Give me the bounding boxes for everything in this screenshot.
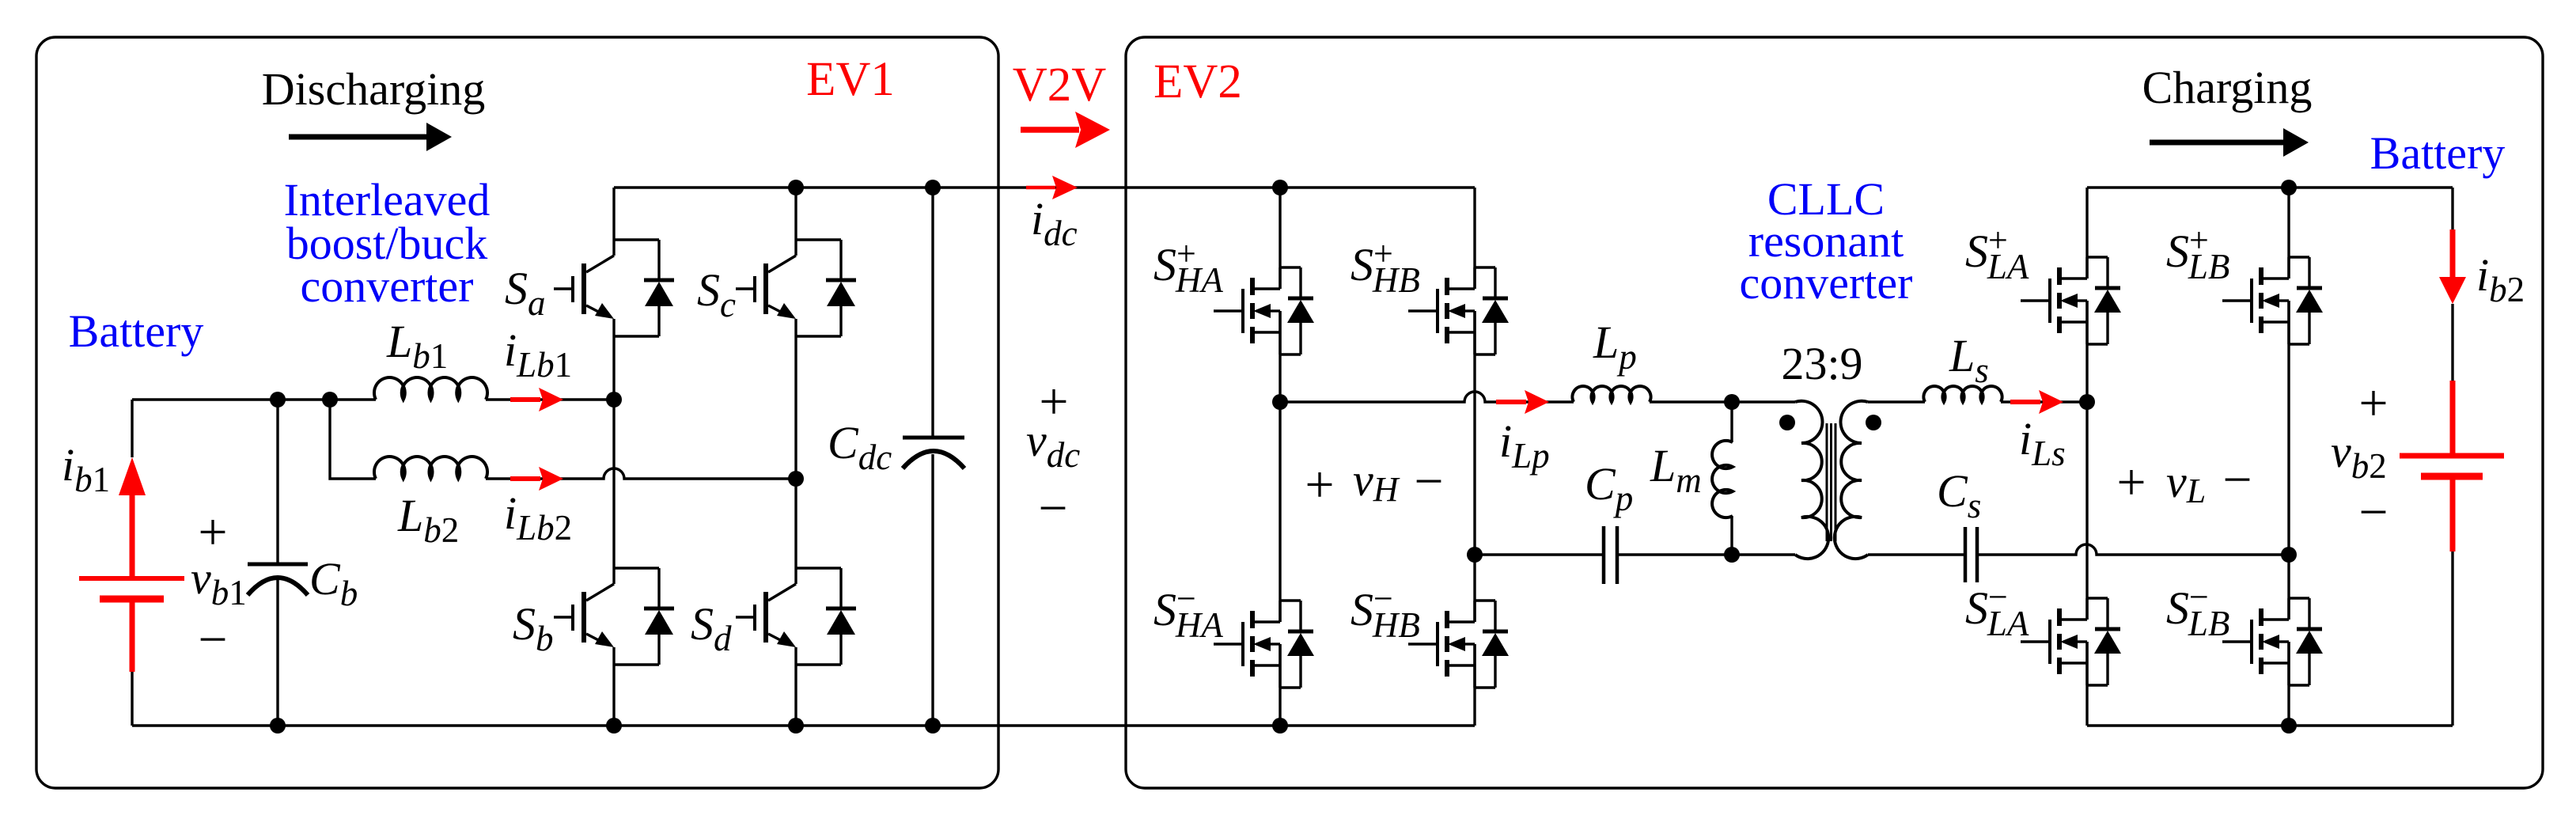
wire: Lb1 to leg-a midpoint: [486, 398, 614, 400]
transistor S+LB (MOSFET): [2222, 257, 2323, 344]
transistor S-HB (MOSFET): [1408, 601, 1509, 688]
transistor S+HA (MOSFET): [1214, 267, 1314, 354]
wire: tank top from HA mid with hop over HB leg: [1280, 392, 1574, 402]
arrow V2V transfer (large red): [1021, 127, 1079, 133]
battery B1 lower red stem: [130, 602, 135, 672]
transistor S+HB (MOSFET): [1408, 267, 1509, 354]
svg-text:converter: converter: [1740, 257, 1913, 309]
node: LA midpoint: [2079, 394, 2095, 410]
wire: EV1/EV2 HV top DC rail: [614, 186, 1475, 188]
svg-text:Cb: Cb: [309, 553, 358, 613]
node: top rail Cdc: [925, 180, 941, 195]
battery B1 long plate: [79, 576, 184, 581]
transformer T1 primary polarity dot: [1779, 415, 1795, 430]
inductor Ls: [1923, 386, 2002, 402]
wire: Cp to transformer primary bottom corner: [1617, 553, 1795, 555]
transformer T1 primary winding: [1795, 401, 1828, 559]
node: bottom rail Cdc: [925, 718, 941, 733]
capacitor Cp: [1604, 526, 1617, 584]
wire: transformer secondary bottom corner to Cs: [1868, 553, 1965, 555]
svg-text:Cs: Cs: [1937, 465, 1981, 525]
wire: EV1 leg a-b vertical segments: [612, 188, 615, 726]
wire: LV LA leg vertical segments: [2085, 188, 2088, 726]
svg-text:S+LA: S+LA: [1965, 221, 2029, 286]
inductor Lm (magnetizing): [1712, 402, 1733, 555]
battery B1 current arrow ib1 (red, up): [130, 494, 135, 580]
transformer T1 secondary polarity dot: [1866, 415, 1881, 430]
wire: Cs to LB mid with hop over LA leg: [1977, 544, 2289, 555]
svg-text:vL: vL: [2166, 456, 2206, 510]
arrow iLs: [2010, 390, 2063, 414]
svg-text:Battery: Battery: [69, 305, 204, 357]
transistor Sa (IGBT): [554, 240, 674, 336]
wire: Lp to transformer primary top corner: [1650, 400, 1795, 403]
wire: Ls to LA mid node: [2001, 400, 2087, 403]
battery B2 current arrow ib2 (red, down): [2450, 229, 2456, 279]
wire: LV-side top rail to battery 2: [2087, 186, 2453, 188]
transistor S-LB (MOSFET): [2222, 598, 2323, 685]
svg-text:S−HB: S−HB: [1351, 579, 1420, 645]
svg-text:+: +: [2358, 374, 2388, 432]
wire: LV-side bottom rail to battery 2: [2087, 724, 2453, 726]
svg-text:S−LB: S−LB: [2166, 578, 2229, 643]
arrow iLp: [1496, 390, 1549, 414]
svg-text:iLs: iLs: [2019, 413, 2066, 473]
svg-text:vb2: vb2: [2331, 426, 2387, 486]
node: bottom rail leg-b: [606, 718, 622, 733]
svg-text:Discharging: Discharging: [262, 63, 485, 115]
svg-text:Lb1: Lb1: [386, 316, 448, 376]
node: HB midpoint: [1467, 547, 1483, 563]
svg-text:ib1: ib1: [62, 439, 110, 499]
svg-text:iLb1: iLb1: [504, 324, 572, 385]
node: top rail HA leg: [1272, 180, 1288, 195]
wire: transformer secondary top corner to Ls: [1868, 400, 1925, 403]
transformer T1 secondary winding: [1835, 401, 1868, 559]
node: Lm bottom: [1724, 547, 1740, 563]
svg-text:Sb: Sb: [513, 598, 554, 658]
svg-text:S+HB: S+HB: [1351, 234, 1420, 300]
arrow iLb1: [510, 388, 563, 411]
wire: LV LB leg vertical segments: [2087, 188, 2289, 726]
node: Cb top: [270, 392, 286, 407]
wire: bottom common rail battery1 to EV2 HB leg: [132, 724, 1475, 726]
svg-text:Lp: Lp: [1593, 317, 1637, 377]
svg-text:idc: idc: [1031, 193, 1078, 253]
svg-text:Ls: Ls: [1949, 330, 1989, 390]
svg-text:converter: converter: [301, 260, 474, 312]
svg-text:Sc: Sc: [697, 264, 736, 324]
node: Lm top: [1724, 394, 1740, 410]
svg-text:iLp: iLp: [1499, 415, 1550, 476]
arrow charging (black): [2150, 140, 2283, 146]
transistor Sb (IGBT): [554, 568, 674, 665]
arrow iLb2: [510, 467, 563, 491]
svg-text:Sa: Sa: [505, 263, 546, 323]
node: Lb2 branch: [322, 392, 338, 407]
inductor Lb2: [374, 457, 487, 479]
svg-text:vH: vH: [1353, 454, 1400, 509]
svg-text:+: +: [2116, 453, 2146, 511]
svg-text:ib2: ib2: [2476, 249, 2525, 309]
wire: Lb2 to leg-c midpoint with hop over leg-a: [486, 468, 796, 479]
node: HA midpoint: [1272, 394, 1288, 410]
EV1 enclosure box: [36, 37, 998, 788]
svg-text:Sd: Sd: [691, 598, 732, 658]
wire: tank bottom from HB mid to Cp: [1475, 553, 1604, 555]
battery B2 lower red stem: [2450, 480, 2456, 552]
svg-text:V2V: V2V: [1013, 59, 1107, 112]
transistor S-HA (MOSFET): [1214, 601, 1314, 688]
EV2 enclosure box: [1126, 37, 2543, 788]
svg-text:−: −: [1414, 453, 1443, 510]
svg-text:Lm: Lm: [1650, 440, 1702, 500]
wire: Lb2 branch drop: [330, 400, 376, 479]
svg-text:S+LB: S+LB: [2166, 221, 2229, 286]
svg-text:−: −: [198, 611, 227, 669]
svg-text:Cdc: Cdc: [828, 417, 892, 477]
wire: Cdc leg upper: [931, 188, 934, 436]
svg-text:−: −: [2358, 483, 2388, 541]
svg-text:Charging: Charging: [2142, 62, 2313, 113]
wire: Cdc leg lower: [931, 454, 934, 726]
svg-text:iLb2: iLb2: [504, 487, 572, 548]
battery B2 short plate: [2421, 473, 2483, 480]
svg-text:Cp: Cp: [1585, 458, 1633, 518]
transistor S+LA (MOSFET): [2021, 257, 2121, 344]
wire: EV2 HA leg vertical segments: [1279, 188, 1281, 726]
svg-text:EV1: EV1: [806, 53, 895, 106]
wire: EV1 leg c-d vertical segments: [794, 188, 797, 726]
node: bottom rail HA leg: [1272, 718, 1288, 733]
svg-text:S−LA: S−LA: [1965, 578, 2029, 643]
transistor Sd (IGBT): [736, 568, 856, 665]
node: leg-c midpoint: [788, 471, 804, 487]
transistor S-LA (MOSFET): [2021, 598, 2121, 685]
svg-text:Lb2: Lb2: [397, 490, 459, 550]
svg-text:+: +: [1305, 456, 1334, 514]
battery B1 short plate: [100, 596, 164, 603]
node: top rail leg-c: [788, 180, 804, 195]
battery B1 wires: [131, 400, 133, 726]
wire: EV2 HB leg vertical segments: [1473, 188, 1476, 726]
transistor Sc (IGBT): [736, 240, 856, 336]
svg-text:23:9: 23:9: [1781, 338, 1862, 389]
node: bottom rail Cb: [270, 718, 286, 733]
node: top rail LB leg: [2281, 180, 2297, 195]
svg-text:−: −: [2222, 451, 2252, 509]
capacitor Cdc: [903, 438, 964, 468]
arrow idc: [1026, 186, 1055, 190]
node: LB midpoint: [2281, 547, 2297, 563]
svg-text:S+HA: S+HA: [1154, 234, 1223, 300]
svg-text:−: −: [1038, 480, 1067, 537]
capacitor Cs: [1965, 527, 1977, 582]
wire: battery1 top wire to Lb1: [132, 398, 376, 400]
svg-text:S−HA: S−HA: [1154, 579, 1223, 645]
svg-text:vb1: vb1: [191, 552, 247, 612]
node: leg-a midpoint: [606, 392, 622, 407]
battery B2 upper red stem: [2450, 381, 2456, 456]
battery B2 wires: [2451, 188, 2453, 726]
inductor Lb1: [374, 377, 487, 400]
node: bottom rail leg-d: [788, 718, 804, 733]
arrow discharging (black): [289, 135, 426, 140]
capacitor Cb: [248, 400, 308, 726]
svg-text:Battery: Battery: [2370, 127, 2506, 179]
node: bottom rail LB leg: [2281, 718, 2297, 733]
battery B2 long plate: [2400, 453, 2504, 459]
inductor Lp: [1572, 386, 1650, 402]
svg-text:EV2: EV2: [1154, 55, 1242, 108]
transformer T1 core: [1827, 423, 1835, 541]
